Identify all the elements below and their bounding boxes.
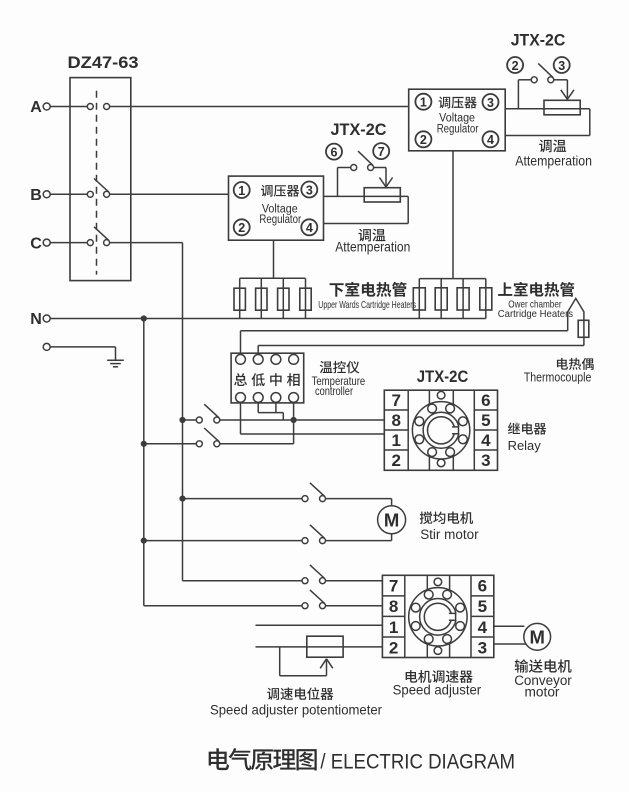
wire controller terminal1 to K3 pin1 — [240, 402, 242, 434]
heater EH3 — [282, 278, 284, 318]
wire R3 wiper loop — [279, 647, 281, 676]
junction — [179, 417, 185, 423]
label 输送电机 Conveyor motor — [515, 659, 572, 672]
svg-text:M: M — [384, 510, 399, 531]
wire thermocouple left lead — [241, 330, 568, 332]
svg-text:6: 6 — [481, 391, 490, 410]
potentiometer R2 调温 — [364, 188, 400, 202]
temperature controller box — [231, 353, 304, 403]
svg-text:7: 7 — [389, 577, 398, 596]
controller bottom terminal 1 — [236, 393, 246, 403]
wire U1 bottom to upper heater bus — [452, 151, 454, 279]
heater EH7 — [462, 279, 464, 319]
junction — [141, 538, 147, 544]
svg-text:Thermocouple: Thermocouple — [524, 369, 592, 384]
svg-text:2: 2 — [389, 638, 398, 657]
heater EH6 — [440, 279, 442, 319]
wire K4 pin1 stub — [256, 624, 383, 626]
wire K4 pin2 through potentiometer R3 — [256, 646, 383, 648]
U1 pin 2 — [415, 131, 431, 147]
label 调温 Attemperation (middle) — [358, 229, 385, 242]
circuit breaker DZ47-63 body — [70, 78, 131, 281]
lower heater top bus — [240, 277, 306, 279]
K1 blade — [538, 63, 553, 77]
svg-text:3: 3 — [478, 638, 487, 657]
wire S4 to stir motor — [325, 540, 391, 542]
svg-text:3: 3 — [306, 183, 313, 197]
controller top terminal 4 — [289, 355, 299, 365]
relay K4 socket (speed adjuster) — [382, 575, 493, 657]
controller bottom terminal 2 — [253, 393, 263, 403]
label 总低中相 — [234, 373, 247, 386]
U1 pin 3 — [483, 94, 499, 110]
wire neutral N — [50, 318, 486, 320]
terminal A — [43, 103, 50, 110]
wire R2 to U2 pin4 — [407, 196, 409, 223]
K2 contacts — [351, 165, 357, 171]
wire S6 to K4 pin8 — [325, 605, 382, 607]
svg-text:A: A — [30, 99, 42, 116]
heater EH4 — [305, 278, 307, 318]
U1 label 调压器 — [439, 97, 477, 109]
stir motor M1 — [378, 506, 406, 534]
svg-text:Relay: Relay — [508, 438, 542, 453]
potentiometer R1 调温 — [544, 100, 580, 115]
wire U2 pin3 to R2 — [324, 195, 409, 197]
svg-text:Regulator: Regulator — [437, 124, 479, 136]
wire switch S1 to K3 pin8 — [220, 419, 385, 421]
K2 blade — [358, 151, 373, 165]
wire K4 pin4 to conveyor motor — [494, 625, 525, 627]
K1 pin 2 — [507, 57, 523, 73]
svg-text:Speed adjuster potentiometer: Speed adjuster potentiometer — [210, 702, 382, 718]
junction — [179, 496, 185, 502]
junction — [291, 417, 297, 423]
svg-text:5: 5 — [481, 411, 490, 430]
K2 pin 6 — [326, 144, 342, 160]
svg-text:M: M — [529, 627, 544, 648]
svg-text:Stir motor: Stir motor — [420, 527, 479, 542]
svg-text:1: 1 — [238, 184, 245, 198]
svg-text:2: 2 — [238, 221, 245, 235]
wire U1 pin3 to R1 — [505, 108, 590, 110]
wire K1 right contact to potentiometer R1 wiper — [554, 79, 568, 81]
svg-text:B: B — [30, 187, 42, 204]
U2 pin 1 — [234, 182, 250, 198]
breaker pole B contacts — [87, 191, 93, 197]
wire controller terminal4 stub — [293, 402, 295, 420]
ground symbol — [107, 359, 124, 361]
label 调速电位器 Speed adjuster potentiometer — [267, 687, 333, 700]
bus from phase C — [182, 243, 184, 581]
label 下室电热管 — [330, 282, 407, 297]
wire K2 left contact to U2 pin3 — [338, 167, 351, 169]
svg-text:motor: motor — [525, 685, 561, 700]
wire K2 right contact to potentiometer R2 wiper — [374, 167, 387, 169]
terminal B — [43, 191, 50, 198]
U2 pin 3 — [301, 182, 317, 198]
switch S3 — [183, 498, 303, 500]
switch S2 — [144, 443, 197, 445]
switch S4 — [144, 540, 302, 542]
controller top terminal 3 — [271, 355, 281, 365]
svg-text:N: N — [30, 311, 42, 328]
svg-text:4: 4 — [481, 431, 491, 450]
heater EH8 — [485, 279, 487, 319]
wire S2 riser to K3 pin8 node — [220, 443, 294, 445]
terminal C — [43, 239, 50, 246]
wire S5 to K4 pin7 — [325, 580, 382, 582]
label 电机调速器 Speed adjuster — [406, 670, 473, 683]
svg-text:6: 6 — [478, 577, 487, 596]
breaker pole C blade — [94, 227, 109, 241]
bus from neutral N — [143, 319, 145, 606]
ground wire — [50, 346, 116, 348]
ground terminal — [43, 343, 50, 350]
svg-text:6: 6 — [331, 145, 338, 159]
switch S6 — [144, 605, 302, 607]
svg-text:4: 4 — [478, 618, 488, 637]
controller top terminal 1 — [236, 355, 246, 365]
svg-text:Attemperation: Attemperation — [335, 238, 410, 254]
svg-text:Upper Wards Cartridge Heaters: Upper Wards Cartridge Heaters — [318, 299, 416, 311]
voltage regulator U1 box — [409, 89, 506, 151]
label 继电器 Relay — [508, 422, 546, 434]
svg-text:/ ELECTRIC DIAGRAM: / ELECTRIC DIAGRAM — [320, 750, 515, 773]
wire U2 bottom to lower heater bus — [273, 240, 275, 278]
wire phase C — [50, 242, 87, 244]
wire S3 to stir motor — [325, 498, 391, 500]
svg-text:2: 2 — [392, 451, 401, 470]
relay K3 socket — [384, 390, 497, 470]
svg-text:2: 2 — [420, 133, 427, 147]
K1 contacts — [531, 77, 537, 83]
svg-text:1: 1 — [420, 95, 427, 109]
svg-text:7: 7 — [378, 145, 385, 159]
svg-text:8: 8 — [392, 411, 401, 430]
svg-text:Attemperation: Attemperation — [515, 153, 592, 169]
svg-text:1: 1 — [392, 431, 401, 450]
K2 pin 7 — [373, 143, 389, 159]
wire phase A — [50, 106, 87, 108]
controller top terminal 2 — [253, 355, 263, 365]
svg-text:4: 4 — [306, 221, 313, 235]
svg-text:5: 5 — [478, 597, 487, 616]
wire K1 left contact to U1 pin3 — [518, 79, 531, 81]
svg-text:8: 8 — [389, 597, 398, 616]
svg-text:7: 7 — [392, 391, 401, 410]
heater EH1 — [239, 278, 241, 318]
svg-text:Regulator: Regulator — [259, 214, 301, 226]
svg-text:3: 3 — [558, 59, 565, 73]
heater EH2 — [260, 278, 262, 318]
U2 label 调压器 — [261, 185, 299, 197]
breaker pole A contacts — [87, 104, 93, 110]
svg-text:2: 2 — [512, 59, 519, 73]
svg-text:1: 1 — [389, 618, 398, 637]
svg-text:3: 3 — [481, 451, 490, 470]
U1 pin 1 — [415, 94, 431, 110]
label 电热偶 Thermocouple — [557, 358, 594, 370]
svg-text:C: C — [30, 235, 42, 252]
potentiometer R3 调速电位器 — [307, 636, 343, 657]
heater EH5 — [418, 279, 420, 319]
title 电气原理图 ELECTRIC DIAGRAM — [209, 748, 317, 770]
label 调温 Attemperation (right) — [539, 140, 566, 153]
label 上室电热管 — [498, 282, 574, 297]
svg-text:Cartridge Heaters: Cartridge Heaters — [498, 308, 573, 320]
breaker pole B blade — [94, 179, 109, 193]
svg-text:controller: controller — [315, 384, 353, 398]
svg-text:Speed adjuster: Speed adjuster — [393, 682, 482, 698]
junction — [141, 441, 147, 447]
U2 pin 2 — [234, 219, 250, 235]
switch S1 — [183, 419, 197, 421]
breaker pole C contacts — [87, 240, 93, 246]
upper heater top bus — [419, 278, 486, 280]
wire thermocouple right lead — [258, 345, 584, 347]
switch S5 — [183, 580, 303, 582]
junction — [141, 315, 147, 321]
controller bottom terminal 4 — [289, 393, 299, 403]
svg-text:JTX-2C: JTX-2C — [331, 121, 387, 139]
voltage regulator U2 box — [229, 176, 324, 240]
svg-text:DZ47-63: DZ47-63 — [68, 54, 139, 72]
U1 pin 4 — [483, 131, 499, 147]
wire K4 pin3 to conveyor motor — [494, 643, 526, 645]
svg-text:JTX-2C: JTX-2C — [417, 368, 469, 386]
controller bottom terminal 3 — [271, 393, 281, 403]
label 温控仪 Temperature controller — [320, 361, 360, 374]
K1 pin 3 — [554, 57, 570, 73]
wire phase B — [50, 193, 87, 195]
label 搅均电机 Stir motor — [420, 511, 473, 524]
terminal N — [43, 315, 50, 322]
svg-text:3: 3 — [487, 96, 494, 110]
svg-text:JTX-2C: JTX-2C — [511, 31, 566, 49]
wire controller terminals2+3 bridge — [257, 402, 259, 412]
svg-text:4: 4 — [487, 133, 494, 147]
conveyor motor M2 — [524, 623, 551, 650]
thermocouple TC — [568, 298, 584, 345]
U2 pin 4 — [301, 219, 317, 235]
wire R1 to U1 pin4 — [589, 109, 591, 136]
